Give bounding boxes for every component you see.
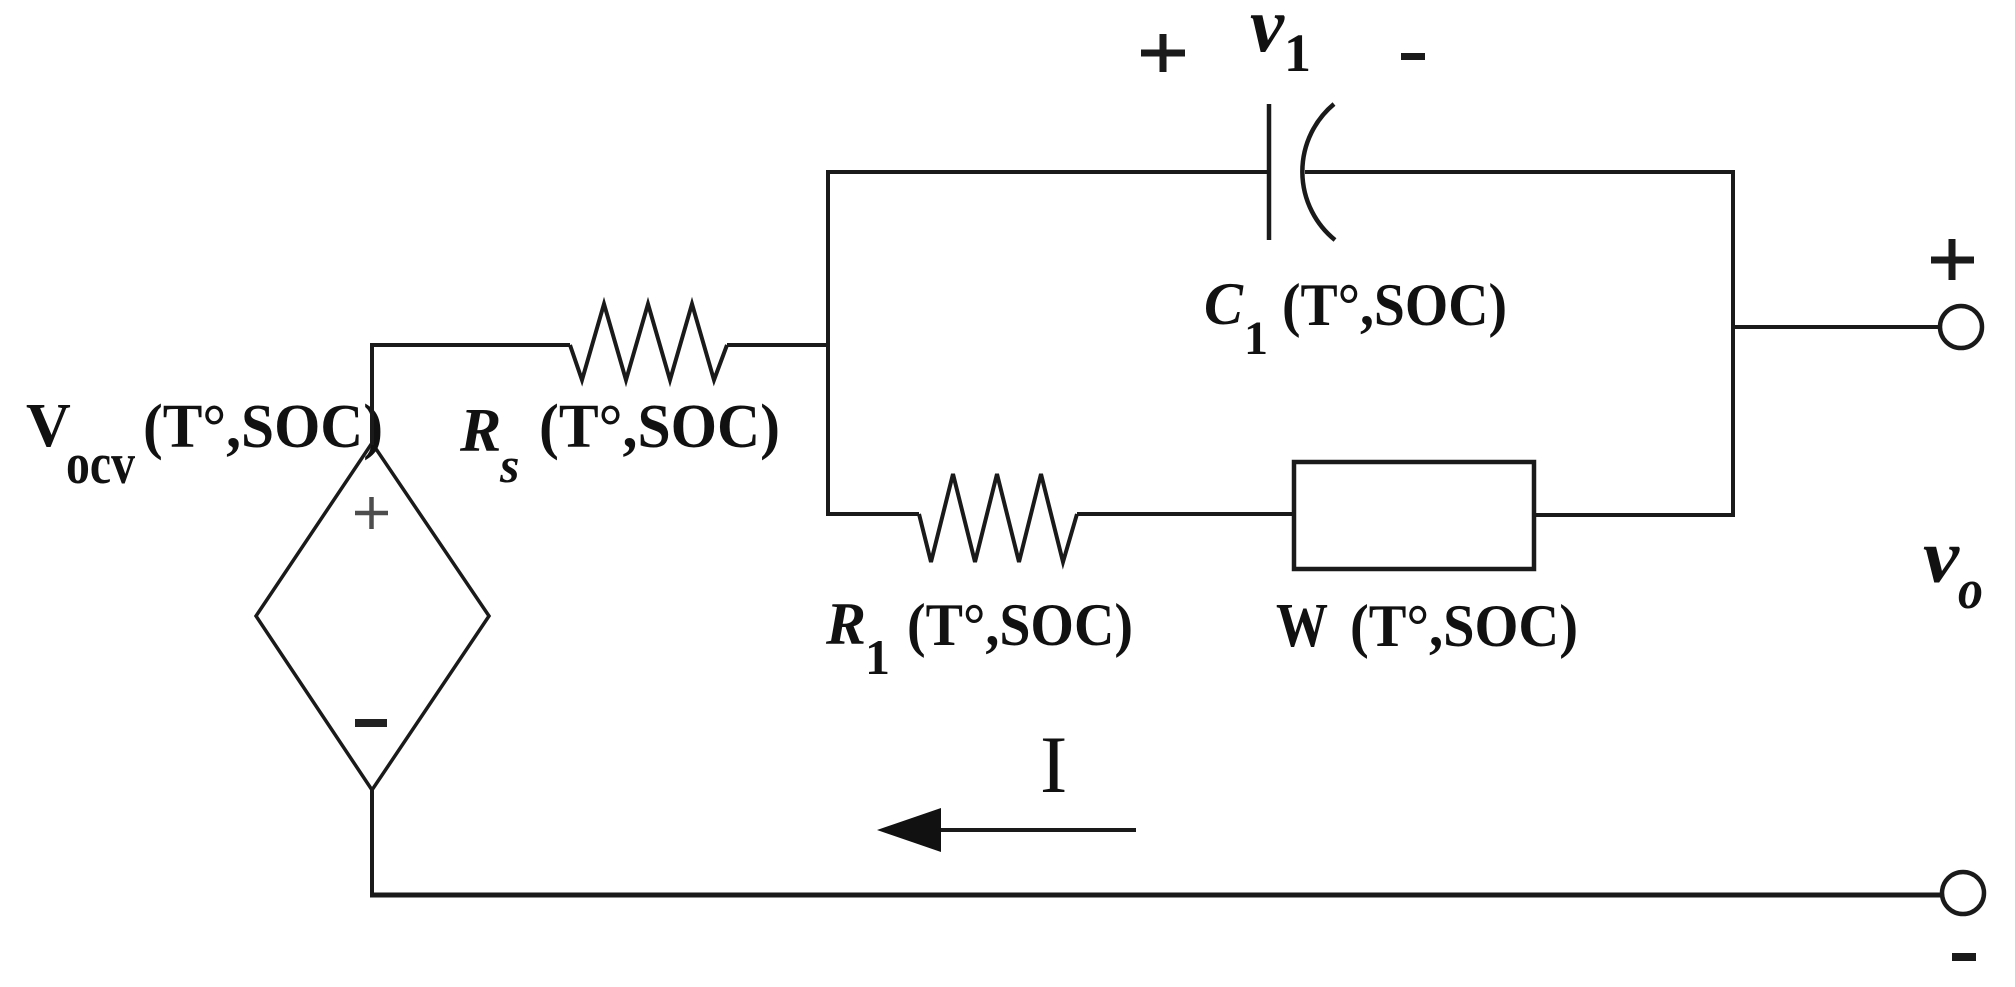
resistor Rs [570, 304, 727, 380]
plus mark at output [1931, 239, 1974, 280]
wire: W to right rail [1534, 513, 1735, 517]
svg-text:(T°,SOC): (T°,SOC) [539, 393, 780, 461]
svg-text:V: V [26, 392, 71, 460]
plus mark inside source [355, 497, 388, 529]
wire: node A horizontal to resistor Rs [370, 343, 570, 347]
minus mark at bottom terminal [1952, 953, 1976, 961]
label v1 [1250, 0, 1311, 83]
terminal circle (-) [1942, 872, 1984, 914]
svg-text:s: s [499, 437, 519, 493]
plus mark of v1 [1141, 34, 1185, 72]
svg-text:o: o [1958, 559, 1983, 621]
wire: output tap to terminal [1733, 325, 1940, 329]
svg-text:(T°,SOC): (T°,SOC) [1282, 272, 1507, 338]
wire: bottom rail [370, 893, 1941, 898]
svg-text:1: 1 [1244, 312, 1268, 365]
wire: bottom branch left segment [828, 512, 919, 516]
svg-text:v: v [1923, 515, 1960, 599]
label C1 (T°,SOC) [1204, 271, 1507, 365]
resistor R1 [919, 474, 1077, 562]
svg-text:(T°,SOC): (T°,SOC) [143, 393, 383, 461]
Warburg element W (box) [1294, 462, 1534, 569]
minus mark inside source [355, 719, 387, 727]
label W (T°,SOC) [1276, 592, 1578, 660]
wire: Rs to left rail [727, 343, 830, 347]
minus mark of v1 [1401, 53, 1425, 60]
svg-text:R: R [825, 591, 866, 657]
wire: left rail vertical [826, 171, 830, 516]
wire: top branch right segment [1305, 170, 1735, 174]
label Vocv(T°,SOC) [26, 392, 383, 496]
current arrow I [938, 828, 1136, 832]
wire: source bottom to bottom rail [370, 788, 374, 896]
svg-text:(T°,SOC): (T°,SOC) [1350, 593, 1578, 659]
svg-text:I: I [1040, 719, 1067, 810]
wire: top branch left segment [826, 170, 1267, 174]
svg-text:C: C [1204, 271, 1244, 337]
svg-text:ocv: ocv [66, 431, 135, 496]
dependent voltage source U1 (diamond) [256, 443, 489, 790]
svg-text:R: R [459, 397, 501, 465]
svg-text:1: 1 [865, 629, 890, 685]
wire: R1 to W [1077, 512, 1296, 516]
label vo [1923, 515, 1983, 621]
terminal circle (+) [1940, 306, 1982, 348]
label R1 (T°,SOC) [825, 591, 1133, 685]
label Rs (T°,SOC) [459, 393, 780, 493]
svg-text:1: 1 [1284, 23, 1311, 83]
capacitor C1 curved plate [1302, 104, 1335, 240]
wire: right rail vertical [1731, 170, 1735, 517]
capacitor C1 left plate [1267, 104, 1272, 240]
svg-text:W: W [1276, 592, 1328, 660]
wire: source top to node A [370, 343, 374, 445]
svg-text:v: v [1250, 0, 1285, 68]
svg-text:(T°,SOC): (T°,SOC) [907, 592, 1133, 658]
